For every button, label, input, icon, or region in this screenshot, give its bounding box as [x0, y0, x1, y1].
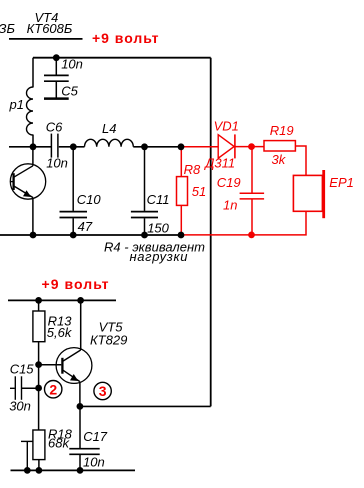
- node VT5 collector top: [77, 297, 84, 304]
- svg-text:R8: R8: [184, 162, 201, 177]
- node top rail junction: [53, 54, 60, 61]
- svg-text:3: 3: [99, 383, 107, 399]
- svg-text:ЗБ: ЗБ: [0, 21, 15, 36]
- svg-text:10n: 10n: [83, 455, 105, 470]
- node C10-rail: [70, 232, 77, 239]
- transistor VT5 label: [90, 320, 127, 348]
- svg-text:р1: р1: [9, 97, 24, 112]
- resistor R18: [21, 427, 73, 471]
- svg-text:VD1: VD1: [214, 119, 239, 134]
- svg-text:3k: 3k: [272, 152, 287, 167]
- svg-text:R19: R19: [270, 123, 294, 138]
- node R8 bottom junction: [178, 232, 185, 239]
- svg-text:47: 47: [78, 219, 93, 234]
- svg-text:68k: 68k: [48, 435, 70, 450]
- diode VD1: [203, 119, 239, 171]
- svg-text:1n: 1n: [223, 198, 237, 213]
- svg-text:+9 вольт: +9 вольт: [92, 30, 159, 46]
- wire lower +9V rail: [8, 299, 116, 301]
- transistor VT5: [56, 300, 92, 406]
- svg-text:C6: C6: [46, 119, 63, 134]
- svg-text:51: 51: [192, 184, 206, 199]
- svg-text:КТ608Б: КТ608Б: [27, 21, 73, 36]
- svg-text:C19: C19: [217, 175, 241, 190]
- node R13 top: [35, 297, 42, 304]
- resistor R13: [33, 300, 73, 430]
- capacitor C11: [131, 147, 170, 236]
- svg-text:10n: 10n: [61, 56, 83, 71]
- wire R19 to EP1: [295, 146, 306, 175]
- node red bottom: [248, 232, 255, 239]
- svg-text:C17: C17: [83, 429, 108, 444]
- speaker EP1: [293, 170, 353, 218]
- wire mid rail between C6 and L4: [59, 146, 85, 148]
- svg-text:150: 150: [147, 220, 169, 235]
- wire base: [39, 364, 62, 366]
- svg-text:C11: C11: [147, 192, 170, 207]
- node C6-C10 junction: [70, 143, 77, 150]
- pin 2 marker: [45, 381, 62, 398]
- resistor R19: [264, 123, 295, 167]
- svg-text:2: 2: [49, 381, 57, 397]
- wire bottom rail (lower circuit): [11, 469, 136, 471]
- node C17-rail: [77, 467, 84, 474]
- wire bottom ground rail (upper circuit): [0, 234, 181, 236]
- svg-text:L4: L4: [102, 121, 116, 136]
- node coil-emitter junction: [30, 143, 37, 150]
- svg-text:Д311: Д311: [203, 156, 235, 171]
- capacitor C10: [60, 147, 102, 235]
- node emitter junction: [77, 403, 84, 410]
- wire output horizontal to VT5 emitter: [80, 405, 211, 407]
- svg-text:КТ829: КТ829: [90, 333, 127, 348]
- transistor VT4: [10, 147, 46, 235]
- wire mid rail L4 to R8 node: [133, 146, 181, 148]
- capacitor C6: [46, 119, 68, 170]
- capacitor C5: [44, 56, 83, 98]
- inductor L4: [85, 121, 134, 147]
- svg-text:C5: C5: [61, 83, 78, 98]
- wire mid rail left: [9, 146, 51, 148]
- wire diode to R19: [235, 146, 264, 148]
- wire right vertical: [210, 58, 212, 407]
- node emitter-rail: [30, 232, 37, 239]
- svg-text:EP1: EP1: [329, 175, 354, 190]
- note R4 equivalent load: [104, 239, 205, 263]
- capacitor C19: [217, 147, 264, 235]
- svg-text:10n: 10n: [46, 156, 68, 171]
- wire EP1 bottom return: [181, 211, 306, 235]
- node R18-rail: [36, 467, 43, 474]
- resistor R8: [177, 147, 207, 235]
- svg-text:C15: C15: [10, 361, 35, 376]
- node base junction: [35, 361, 42, 368]
- node L4-C11 junction: [141, 143, 148, 150]
- node stub-rail: [24, 467, 31, 474]
- node R8 top junction: [178, 143, 185, 150]
- inductor Dr1 (р1): [9, 58, 34, 147]
- wire red node to diode: [181, 146, 218, 148]
- node C11-rail: [141, 232, 148, 239]
- svg-text:нагрузки: нагрузки: [130, 249, 188, 264]
- svg-text:+9 вольт: +9 вольт: [42, 276, 109, 292]
- node red top: [248, 143, 255, 150]
- capacitor C17: [69, 406, 108, 470]
- capacitor C15: [9, 361, 38, 413]
- svg-text:C10: C10: [77, 192, 102, 207]
- transistor VT4 label: [0, 10, 83, 39]
- node C15 junction: [35, 385, 42, 392]
- pin 3 marker: [94, 382, 111, 399]
- svg-text:5,6k: 5,6k: [47, 325, 73, 340]
- svg-text:30n: 30n: [9, 399, 31, 414]
- wire top +9V rail: [33, 57, 211, 59]
